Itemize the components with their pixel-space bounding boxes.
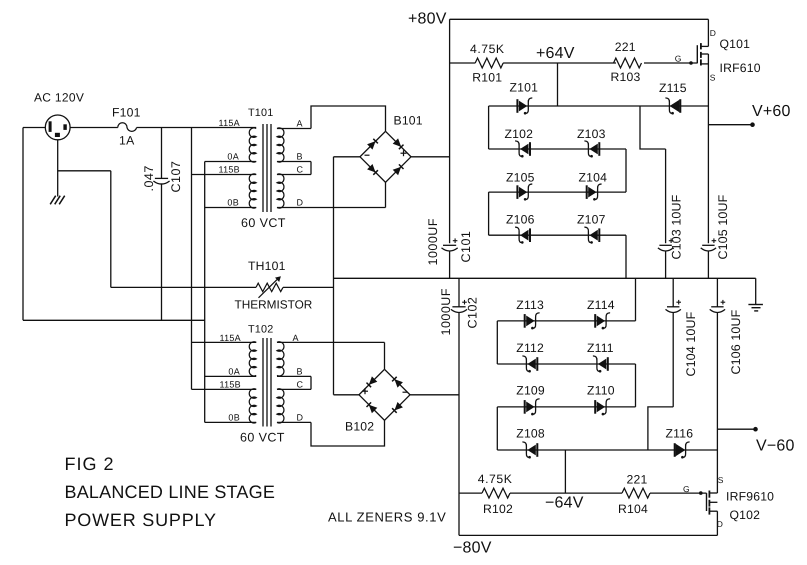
wire C106 top <box>716 278 718 307</box>
bridge B102 diode BR <box>392 402 403 413</box>
bridge B101 diode TL <box>367 139 378 150</box>
svg-text:60 VCT: 60 VCT <box>240 431 285 445</box>
zener Z110 <box>594 399 610 416</box>
wire mid rail to rowB1 <box>635 278 637 321</box>
svg-text:Z106: Z106 <box>506 213 535 227</box>
svg-text:B: B <box>297 152 303 162</box>
wire T101 A stub <box>277 128 311 130</box>
capacitor C107 wire top <box>161 128 163 179</box>
wire B102 plus out <box>334 394 360 396</box>
svg-text:THERMISTOR: THERMISTOR <box>235 298 313 312</box>
transistor Q102 gate bar <box>706 493 708 511</box>
svg-text:R104: R104 <box>618 502 648 516</box>
wire zener row2 <box>489 148 626 150</box>
svg-text:60 VCT: 60 VCT <box>241 216 286 230</box>
zener Z104 <box>586 184 602 201</box>
bridge B101 diode BR <box>393 164 404 175</box>
svg-text:C107: C107 <box>169 161 183 193</box>
wire grid left lower <box>488 192 490 235</box>
wire hot vertical <box>191 128 193 390</box>
transformer T101 primary stubs <box>192 162 257 208</box>
svg-text:G: G <box>683 484 690 494</box>
svg-text:FIG 2: FIG 2 <box>65 454 115 474</box>
wire -80V bottom rail <box>459 534 717 536</box>
svg-text:1000UF: 1000UF <box>439 288 453 335</box>
wire V+60 rail <box>707 54 709 243</box>
wire T102 D stub <box>277 421 311 423</box>
svg-text:B102: B102 <box>345 420 374 434</box>
svg-text:TH101: TH101 <box>248 259 286 273</box>
svg-text:Z116: Z116 <box>666 427 694 441</box>
thermistor TH101 <box>256 276 283 298</box>
svg-text:POWER SUPPLY: POWER SUPPLY <box>65 510 217 530</box>
transistor Q102 channel <box>708 491 710 515</box>
transistor Q101 channel <box>700 43 702 65</box>
svg-text:Z108: Z108 <box>516 426 545 440</box>
svg-text:1000UF: 1000UF <box>426 218 440 265</box>
transformer T102 primary coils <box>249 342 256 423</box>
wire Q101 source stub <box>701 63 709 65</box>
svg-text:T101: T101 <box>248 107 273 119</box>
wire grid left upper <box>488 106 490 149</box>
svg-text:Z101: Z101 <box>510 81 539 95</box>
wire thermistor right <box>283 286 334 288</box>
svg-text:115A: 115A <box>218 118 240 128</box>
svg-text:Q102: Q102 <box>730 508 761 522</box>
wire R104 to gate <box>650 492 707 494</box>
wire +80V top rail <box>450 18 709 20</box>
resistor R101 <box>475 58 503 68</box>
zener Z112 <box>522 356 538 373</box>
svg-text:F101: F101 <box>112 106 141 120</box>
wire plug branch right <box>58 170 111 172</box>
svg-text:Z109: Z109 <box>516 384 545 398</box>
AC plug J101 <box>45 115 70 140</box>
svg-text:B: B <box>297 366 303 376</box>
zener Z106 <box>515 227 531 244</box>
svg-text:R102: R102 <box>483 502 513 516</box>
svg-text:AC 120V: AC 120V <box>34 91 84 105</box>
svg-text:Z110: Z110 <box>587 384 615 398</box>
node V+60 dot <box>750 122 755 127</box>
wire T101 B stub <box>277 161 311 163</box>
svg-text:C104 10UF: C104 10UF <box>684 311 698 376</box>
bridge B102 diode BL <box>367 402 378 413</box>
wire C104 to jog <box>672 312 674 407</box>
wire plug left to corner <box>23 127 45 129</box>
wire T102 C stub <box>277 388 311 390</box>
svg-text:BALANCED LINE STAGE: BALANCED LINE STAGE <box>65 482 276 502</box>
bridge B102 minus mark <box>403 391 408 393</box>
svg-text:Z102: Z102 <box>505 127 534 141</box>
wire fuse to T101 115A <box>137 127 257 129</box>
wire branch down to thermistor <box>110 171 112 288</box>
wire Q102 source stub <box>709 492 717 494</box>
wire Q101 body stub <box>701 53 709 55</box>
svg-text:Z104: Z104 <box>579 171 608 185</box>
wire T102 B stub <box>277 375 311 377</box>
svg-text:R101: R101 <box>472 70 502 84</box>
zener Z109 <box>524 399 540 416</box>
zener Z105 <box>516 184 532 201</box>
wire T102 A to bridge top <box>277 342 385 369</box>
transformer T102 core <box>263 338 271 427</box>
zener Z103 <box>584 141 600 158</box>
capacitor C107 wire bottom <box>161 183 163 320</box>
transformer T102 primary stubs <box>192 342 257 422</box>
wire grid right mid <box>625 149 627 192</box>
svg-text:.047: .047 <box>142 165 156 191</box>
wire Q102 drain stub <box>709 511 717 535</box>
svg-text:Z115: Z115 <box>659 81 687 95</box>
svg-text:Q101: Q101 <box>720 37 751 51</box>
wire zener row1 <box>489 105 709 107</box>
capacitor C102 <box>451 300 467 313</box>
zener Z108 <box>522 442 538 459</box>
svg-text:T102: T102 <box>248 324 273 336</box>
wire bgrid right mid <box>635 364 637 407</box>
wire AC hot: plug to fuse <box>70 127 118 129</box>
svg-text:R103: R103 <box>611 70 641 84</box>
svg-text:C: C <box>297 165 304 175</box>
transformer T101 primary coils <box>249 128 256 208</box>
wire B102 minus out <box>410 394 459 396</box>
transformer T101 core <box>263 124 271 212</box>
wire V-60 rail <box>716 312 718 493</box>
svg-text:C101: C101 <box>459 231 473 263</box>
bridge B102 diode TR <box>392 377 403 388</box>
wire left edge vertical <box>22 128 24 321</box>
wire zener rowB2 <box>497 363 635 365</box>
svg-text:Z107: Z107 <box>577 213 606 227</box>
wire T102 D down-over to bridge <box>311 420 385 446</box>
wire zener rowB3 <box>497 406 635 408</box>
svg-text:221: 221 <box>615 40 636 54</box>
svg-text:−64V: −64V <box>545 495 584 512</box>
svg-text:V+60: V+60 <box>752 103 791 120</box>
svg-text:D: D <box>717 519 723 529</box>
wire T101 B-C link <box>310 162 312 175</box>
capacitor C104 <box>666 300 682 313</box>
wire T101 D stub <box>277 207 386 209</box>
wire C105 to mid rail <box>707 251 709 279</box>
ground earth symbol <box>50 196 64 205</box>
wire C101 to mid rail <box>449 251 451 279</box>
svg-text:Z105: Z105 <box>506 171 535 185</box>
svg-text:4.75K: 4.75K <box>470 42 505 56</box>
wire T101 C stub <box>277 174 311 176</box>
wire bgrid left upper <box>496 321 498 364</box>
svg-text:C: C <box>297 379 304 389</box>
svg-text:Z113: Z113 <box>516 298 544 312</box>
wire R101 to R103 <box>503 62 616 64</box>
zener Z101 <box>516 98 532 115</box>
wire zener row3 <box>489 191 626 193</box>
wire +64V drop <box>557 63 559 106</box>
svg-text:ALL ZENERS 9.1V: ALL ZENERS 9.1V <box>328 510 446 525</box>
bridge B102 diode TL <box>367 376 378 387</box>
svg-text:115B: 115B <box>219 379 241 389</box>
capacitor C105 <box>701 238 717 251</box>
wire bgrid left lower <box>496 407 498 450</box>
zener Z115 <box>665 98 681 115</box>
resistor R103 <box>614 58 642 68</box>
wire R102 to R104 <box>510 492 622 494</box>
wire B101 plus out <box>411 156 450 158</box>
svg-text:1A: 1A <box>119 134 135 148</box>
svg-text:C105 10UF: C105 10UF <box>716 194 730 259</box>
wire jog C104-rowB4 <box>648 407 673 450</box>
bridge B101 diode BL <box>367 164 378 175</box>
svg-text:G: G <box>675 54 682 64</box>
capacitor C107 <box>153 178 169 184</box>
wire +80V left vertical <box>449 19 451 243</box>
wire V-60 tap <box>717 428 755 430</box>
svg-text:4.75K: 4.75K <box>478 472 513 486</box>
svg-text:Z111: Z111 <box>587 341 614 355</box>
wire zener rowB4 <box>497 449 717 451</box>
svg-text:A: A <box>293 333 299 343</box>
resistor R102 <box>482 488 510 498</box>
svg-text:0A: 0A <box>228 366 240 376</box>
svg-text:V−60: V−60 <box>756 438 795 455</box>
transformer T101 secondary coils <box>277 128 284 208</box>
bridge B102 plus mark <box>362 388 368 394</box>
wire C103 to mid rail <box>665 251 667 279</box>
svg-text:221: 221 <box>627 472 648 486</box>
wire -80V left vertical <box>458 312 460 535</box>
svg-text:A: A <box>297 119 303 129</box>
fuse F101 <box>118 123 137 132</box>
svg-text:0A: 0A <box>227 152 239 162</box>
wire jog row1-C103 <box>640 106 666 149</box>
wire Q102 body stub <box>709 501 717 503</box>
svg-text:IRF610: IRF610 <box>720 61 761 75</box>
node V-60 dot <box>753 427 758 432</box>
wire T102 B-C link <box>310 376 312 389</box>
wire T101 A up-over to bridge <box>311 106 386 131</box>
node gate dot Q102 <box>699 491 703 495</box>
bridge B101 plus mark <box>401 150 407 156</box>
zener Z107 <box>584 227 600 244</box>
svg-text:C106 10UF: C106 10UF <box>729 309 743 374</box>
zener Z114 <box>594 313 610 330</box>
wire rail to R102 <box>459 492 482 494</box>
svg-text:D: D <box>297 412 304 422</box>
svg-text:S: S <box>710 73 716 83</box>
wire B101 minus out <box>334 156 361 158</box>
wire mid rail <box>334 277 756 279</box>
svg-text:+80V: +80V <box>408 11 447 28</box>
svg-text:B101: B101 <box>394 114 423 128</box>
svg-text:S: S <box>718 475 724 485</box>
wire plug bottom to earth <box>57 140 59 197</box>
svg-text:+64V: +64V <box>536 45 575 62</box>
svg-text:0B: 0B <box>227 198 239 208</box>
svg-text:115A: 115A <box>219 333 241 343</box>
svg-text:C103 10UF: C103 10UF <box>670 194 684 259</box>
capacitor C103 <box>658 238 674 251</box>
wire neutral vertical <box>204 162 206 423</box>
wire row4 to mid rail <box>625 235 627 278</box>
svg-text:115B: 115B <box>218 165 240 175</box>
wire V+60 tap <box>708 124 752 126</box>
zener Z111 <box>593 356 609 373</box>
svg-text:Z114: Z114 <box>587 298 615 312</box>
wire R103 to gate <box>644 62 697 64</box>
svg-text:D: D <box>297 198 304 208</box>
svg-text:IRF9610: IRF9610 <box>726 490 774 504</box>
wire center vertical (0V tie) <box>333 157 335 395</box>
node gate dot Q101 <box>689 61 693 65</box>
bridge B101 minus mark <box>365 154 370 156</box>
wire C104 top <box>672 278 674 307</box>
resistor R104 <box>622 488 650 498</box>
wire zener row4 <box>489 234 626 236</box>
transistor Q101 gate bar <box>696 45 698 63</box>
svg-text:Z112: Z112 <box>516 341 544 355</box>
wire mid rail ground drop <box>755 278 757 304</box>
wire -64V rise <box>564 450 566 493</box>
wire C103 top <box>665 149 667 243</box>
svg-text:D: D <box>710 28 716 38</box>
bridge B101 diode TR <box>393 138 404 149</box>
wire neutral wrap bottom <box>23 319 205 321</box>
bridge B101 diamond <box>360 131 411 182</box>
ground 0V symbol <box>748 305 763 311</box>
svg-text:Z103: Z103 <box>577 127 606 141</box>
zener Z102 <box>515 141 531 158</box>
wire Q101 drain stub <box>701 19 709 46</box>
svg-text:−80V: −80V <box>453 540 492 557</box>
wire rail to R101 <box>450 62 476 64</box>
wire C102 top <box>458 278 460 307</box>
wire zener rowB1 <box>497 320 635 322</box>
capacitor C106 <box>710 300 726 313</box>
zener Z113 <box>524 313 540 330</box>
zener Z116 <box>674 442 690 459</box>
svg-text:0B: 0B <box>228 412 240 422</box>
wire thermistor left <box>111 286 256 288</box>
transformer T102 secondary coils <box>277 342 284 423</box>
capacitor C101 <box>442 238 458 251</box>
bridge B102 diamond <box>359 369 410 420</box>
svg-text:C102: C102 <box>465 297 479 329</box>
wire T101 D up to bridge <box>385 182 387 207</box>
